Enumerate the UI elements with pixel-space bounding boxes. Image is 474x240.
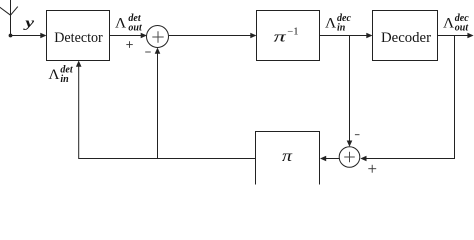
svg-text:Λ: Λ — [48, 67, 59, 83]
block Detector — [47, 11, 110, 61]
plus symbol inside S1 — [152, 31, 163, 42]
svg-text:y: y — [22, 16, 35, 31]
svg-text:Λ: Λ — [115, 16, 126, 32]
label Lambda_out^det — [115, 13, 143, 33]
wire: S1 output to deinterleaver, with arrowhead — [169, 33, 257, 39]
label minus at S1 feedback input — [145, 51, 151, 53]
wire: deinterleaver to Decoder, with arrowhead — [320, 33, 373, 39]
summing node S1 — [147, 26, 169, 48]
wire: antenna node to Detector input, with arrowhead — [11, 33, 47, 39]
block Decoder — [373, 11, 438, 61]
svg-text:−1: −1 — [287, 27, 298, 38]
svg-text:Λ: Λ — [325, 16, 336, 32]
wire: Detector output to summing node S1, with arrowhead — [110, 33, 147, 39]
wire: branch from Decoder output down right side into S2 plus input, with arrowhead — [360, 36, 454, 162]
label Lambda_in^dec — [325, 13, 351, 33]
label minus at S2 top input — [355, 134, 360, 136]
antenna — [0, 0, 18, 36]
svg-text:in: in — [337, 22, 346, 33]
block pi^-1 deinterleaver — [257, 11, 320, 61]
svg-text:in: in — [60, 74, 69, 85]
wire: branch from Lambda_in_dec node down into S2 minus input, with arrowhead — [347, 36, 353, 147]
label Lambda_out^dec — [443, 13, 469, 33]
summing node S2 — [339, 147, 360, 168]
wire: S2 output into interleaver pi, with arrowhead — [320, 156, 340, 162]
svg-text:Λ: Λ — [443, 16, 454, 32]
svg-text:out: out — [455, 22, 470, 33]
label plus at S1 detector input — [126, 41, 133, 48]
svg-text:out: out — [128, 22, 143, 33]
svg-text:Detector: Detector — [54, 29, 103, 46]
plus symbol inside S2 — [344, 152, 355, 163]
label plus at S2 right input — [368, 165, 376, 173]
svg-text:π: π — [282, 148, 294, 165]
block pi interleaver, bottom edge below canvas — [256, 132, 320, 185]
wire: Decoder output to right edge, with arrowhead — [438, 33, 474, 39]
label pi^-1 inside deinterleaver — [274, 27, 299, 46]
junction dot at antenna node — [9, 34, 13, 38]
wire: feedback rail up into S1 minus input, with arrowhead — [155, 48, 161, 159]
wire: pi output feedback rail to Detector bottom input, with arrowhead — [76, 61, 256, 159]
label Lambda_in^det — [48, 65, 73, 85]
svg-text:Decoder: Decoder — [381, 29, 431, 46]
svg-text:π: π — [274, 29, 287, 45]
